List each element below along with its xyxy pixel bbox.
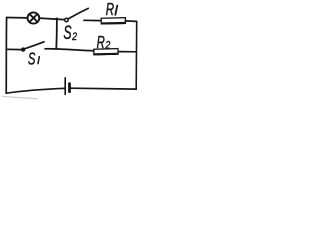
label S1 — [28, 50, 36, 69]
label S2 — [63, 22, 71, 43]
wire left to S1 — [7, 48, 21, 50]
svg-text:2: 2 — [71, 31, 77, 43]
label R2 — [97, 33, 105, 53]
svg-text:R: R — [106, 1, 115, 20]
wire top-left to lamp — [7, 17, 28, 19]
node A junction blob — [56, 18, 58, 20]
svg-text:S: S — [28, 50, 36, 69]
wire battery to bottom-right — [71, 87, 136, 90]
svg-text:R: R — [97, 33, 105, 53]
smudge bottom-left — [2, 96, 38, 99]
label R1 — [106, 1, 115, 20]
wire lamp to node A — [39, 18, 64, 20]
wire bottom-left to battery — [6, 88, 64, 93]
node A junction vertical wire — [55, 18, 58, 48]
resistor R1 — [101, 18, 125, 24]
wire S1 to R2 — [45, 49, 94, 51]
wire S2 to R1 — [84, 19, 101, 21]
switch S1 — [22, 42, 44, 51]
wire left vertical — [5, 18, 7, 94]
switch S2 — [65, 8, 88, 21]
lamp X1 — [28, 12, 40, 23]
junction node B — [55, 48, 57, 50]
wire R1 to top-right corner — [125, 20, 136, 23]
svg-text:S: S — [63, 22, 71, 43]
resistor R2 — [94, 49, 118, 55]
svg-text:2: 2 — [105, 40, 111, 52]
battery B1 — [65, 78, 69, 95]
wire right vertical — [135, 21, 138, 89]
wire R2 to right — [118, 51, 136, 53]
